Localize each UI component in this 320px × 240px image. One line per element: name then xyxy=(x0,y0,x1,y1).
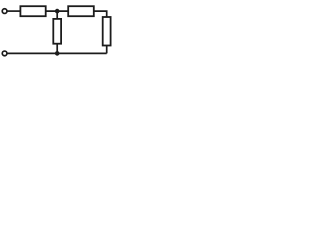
resistor R3 (right series box) xyxy=(68,6,94,16)
wire R3 to top of R4 (corner) xyxy=(94,11,107,17)
wire T1 to R1 xyxy=(7,10,20,12)
resistor R4 (right shunt box) xyxy=(103,17,111,46)
wire R2 down to node B xyxy=(56,44,58,54)
wire node A down to R2 xyxy=(56,11,58,19)
node B (bottom junction dot) xyxy=(55,51,60,56)
bottom rail wire T2 to R4 xyxy=(7,52,107,54)
node A (top junction dot) xyxy=(55,9,60,14)
resistor R1 (left series box) xyxy=(20,6,45,16)
terminal T1 (top-left input) xyxy=(2,9,7,14)
wire R4 down to bottom rail xyxy=(106,46,108,54)
resistor R2 (middle shunt box) xyxy=(53,19,61,44)
terminal T2 (bottom-left input) xyxy=(2,51,7,56)
wire R1 to node A and R3 xyxy=(46,10,68,12)
